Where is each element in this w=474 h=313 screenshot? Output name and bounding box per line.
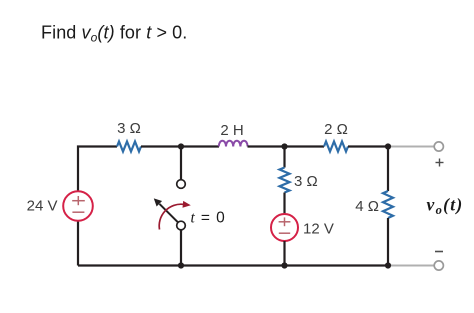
resistor 2ohm (top right) [324,142,348,152]
node top-switch junction [178,143,184,149]
svg-text:12 V: 12 V [303,221,334,238]
value label 3 Ohm (top left) [117,120,141,137]
top output terminal [434,142,443,151]
voltage source 24V circle [63,191,93,221]
voltage source 12V circle [271,214,298,241]
right branch wire lower [387,218,389,266]
middle branch wire between resistor and source [283,193,285,215]
svg-text:3 Ω: 3 Ω [294,173,318,190]
svg-text:2 Ω: 2 Ω [324,121,348,138]
bottom wire [78,264,388,266]
switch lower contact [177,221,186,230]
node top-middle junction [281,143,287,149]
middle branch wire lower [283,241,285,266]
plus label at output [436,159,444,167]
switch branch lower wire [180,230,182,266]
switch branch upper wire [180,147,182,180]
value label 3 Ohm (middle) [294,173,318,190]
value label 2 Ohm [324,121,348,138]
12V plus sign [279,217,291,226]
wire top left segment [78,147,117,266]
node bottom-switch junction [178,262,184,268]
gray lead to bottom output terminal [388,265,434,267]
svg-text:t = 0: t = 0 [191,210,226,227]
24V minus sign [72,211,84,213]
switch upper contact [177,180,186,189]
node bottom-right junction [385,262,391,268]
value label 24 V [27,198,58,215]
gray lead to top output terminal [388,146,434,148]
wire top right of inductor [248,145,325,147]
node bottom-middle junction [281,262,287,268]
middle branch wire upper [283,147,285,168]
24V plus sign [72,196,85,205]
bottom output terminal [434,261,443,270]
svg-text:Find vo(t) for t > 0.: Find vo(t) for t > 0. [41,23,187,45]
svg-text:24 V: 24 V [27,198,58,215]
value label 12 V [303,221,334,238]
output voltage label vo(t) [427,195,464,218]
title text [41,23,187,45]
12V minus sign [279,232,290,234]
value label 4 Ohm [355,198,379,215]
wire top middle segment [141,145,219,147]
svg-text:4 Ω: 4 Ω [355,198,379,215]
switch blade with arrow [154,198,178,222]
inductor 2H [219,141,248,147]
wire to right node [348,145,388,147]
svg-text:3 Ω: 3 Ω [117,120,141,137]
resistor 3ohm (middle, vertical) [280,168,290,193]
right branch wire upper [387,147,389,192]
value label 2 H [220,122,243,139]
switch time label t = 0 [191,210,226,227]
resistor 3ohm (top left) [117,142,141,152]
minus label at output [435,251,443,253]
svg-text:2 H: 2 H [220,122,243,139]
svg-text:vo(t): vo(t) [427,195,464,218]
switch motion arc (red) [159,201,191,230]
resistor 4ohm (right, vertical) [383,191,393,218]
node top-right junction [385,143,391,149]
